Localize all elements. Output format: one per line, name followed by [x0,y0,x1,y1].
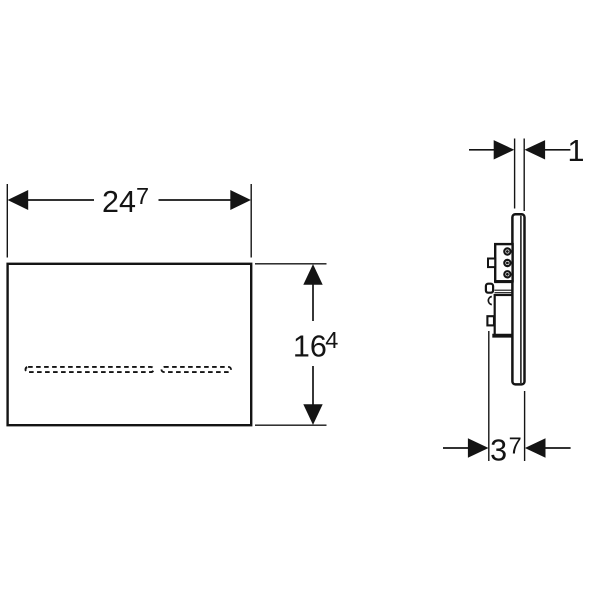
svg-text:1: 1 [568,134,585,168]
width dimension arrowhead left [8,190,29,210]
height dimension arrowhead up [303,264,322,285]
screw boss circle 3 [504,271,510,277]
thickness extension line rear [514,139,516,209]
mounting clip tab upper [488,259,495,268]
width dimension line, left segment [26,199,94,201]
extension line top of height dimension [255,263,327,265]
thickness dimension line right [544,149,570,151]
spring clip hook arc [488,297,491,305]
thickness extension line front [523,139,525,212]
height dimension line, lower segment [312,366,314,406]
svg-text:4: 4 [325,327,338,353]
right flush button (hidden dashed outline) [162,367,232,372]
lower box thick bottom edge [492,334,512,338]
svg-text:7: 7 [136,183,149,209]
mounting frame lower box [495,295,513,336]
screw boss circle 2 [504,260,510,266]
extension line right of width dimension [250,184,252,258]
width dimension arrowhead right [230,190,251,210]
svg-text:3: 3 [490,434,507,468]
frame double seam line 2 [495,292,513,294]
left flush button (hidden dashed outline) [26,367,154,372]
front view: flush plate outline [8,264,252,425]
frame double seam line 1 [495,289,513,291]
extension line bottom of height dimension [255,424,327,426]
depth dimension line right [545,447,571,449]
svg-text:16: 16 [293,330,327,364]
svg-text:24: 24 [102,185,136,219]
side view: flush plate profile [512,214,524,384]
mounting frame upper box [495,244,512,281]
height dimension arrowhead down [303,404,322,425]
spring clip bump [486,284,493,293]
thickness arrowhead pointing right [494,140,515,159]
upper box thick bottom edge [494,280,513,283]
width dimension line, right segment [159,199,233,201]
depth extension line left [488,331,490,461]
side view: plate face curvature line [520,216,522,383]
extension line left of width dimension [6,184,8,258]
svg-text:7: 7 [509,432,522,458]
depth arrowhead pointing left [525,438,546,457]
depth dimension line left [443,447,469,449]
depth arrowhead pointing right [468,438,489,457]
thickness arrowhead pointing left [525,140,546,159]
depth extension line right [524,391,526,461]
thickness dimension line left [469,149,495,151]
height dimension line, upper segment [312,283,314,321]
mounting clip tab lower [487,316,494,325]
screw boss circle 1 [504,248,510,254]
